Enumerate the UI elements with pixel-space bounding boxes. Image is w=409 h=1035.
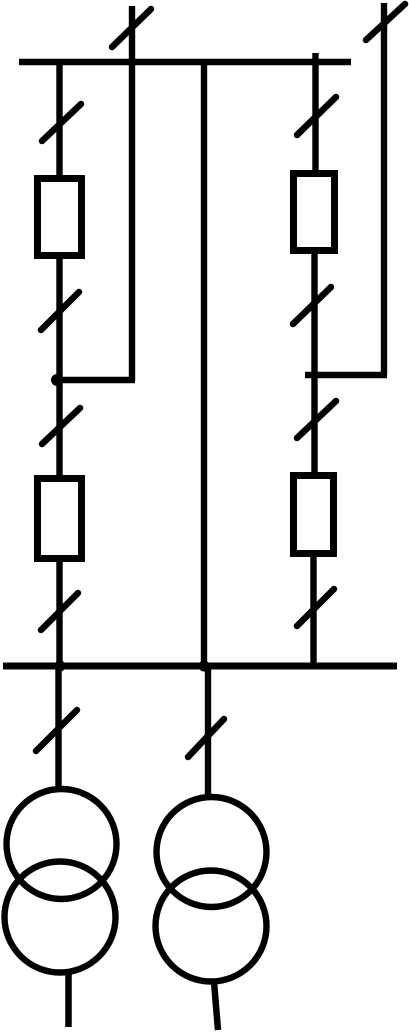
disconnector QS0b (slash on right bypass riser) xyxy=(366,4,405,40)
disconnector QS9 (above transformer T1) xyxy=(36,710,77,751)
breaker QF3 (right upper rectangle) xyxy=(294,174,335,251)
disconnector QS10 (above transformer T2) xyxy=(188,719,224,757)
node A (junction dot, left feeder / bypass) xyxy=(51,374,63,386)
disconnector QS2 (left feeder, above bypass tap) xyxy=(41,292,79,330)
bypass line right (vertical riser) xyxy=(381,3,387,375)
bottom busbar W2 xyxy=(3,663,397,670)
wire: transformer T1 feeder below bottom bus xyxy=(55,666,61,789)
disconnector QS3 (left feeder, below bypass tap) xyxy=(42,408,80,444)
disconnector QS5 (right feeder, below top bus) xyxy=(297,97,336,135)
disconnector QS1 (left feeder, below top bus) xyxy=(42,104,81,141)
breaker QF1 (left upper rectangle) xyxy=(38,179,82,256)
transformer T1 secondary winding xyxy=(5,862,116,973)
breaker QF4 (right lower rectangle) xyxy=(294,476,334,554)
wire: transformer T2 tail xyxy=(214,982,218,1030)
node C (junction dot, middle feeder on bottom bus) xyxy=(199,661,210,672)
disconnector QS7 (right feeder, below bypass tap) xyxy=(297,401,336,438)
disconnector QS4 (left feeder, above bottom bus) xyxy=(41,593,78,630)
disconnector QS6 (right feeder, above bypass tap) xyxy=(293,287,331,324)
disconnector QS0a (slash on left bypass riser) xyxy=(112,9,151,47)
disconnector QS8 (right feeder, above bottom bus) xyxy=(297,589,334,626)
bypass jumper left (horizontal) xyxy=(54,377,135,384)
transformer T2 primary winding xyxy=(157,797,267,907)
transformer T1 primary winding xyxy=(7,789,117,899)
wire: transformer T2 feeder below bottom bus xyxy=(205,666,211,796)
wire: left feeder middle section xyxy=(56,255,62,478)
wire: right feeder upper section xyxy=(312,62,318,173)
bypass jumper right (horizontal) xyxy=(305,372,387,379)
wire: left feeder lower section to bottom bus xyxy=(56,558,62,666)
wire: right feeder stub above top bus xyxy=(312,53,318,62)
bypass line left (vertical riser) xyxy=(129,6,135,381)
wire: middle feeder (top bus to bottom bus) xyxy=(201,62,207,666)
wire: left feeder upper section xyxy=(56,62,62,178)
breaker QF2 (left lower rectangle) xyxy=(38,479,82,559)
wire: transformer T1 tail xyxy=(65,973,72,1027)
transformer T2 secondary winding xyxy=(156,871,267,982)
wire: right feeder lower section to bottom bus xyxy=(310,553,316,666)
wire: right feeder middle section xyxy=(311,250,317,475)
node B (junction dot, left transformer feeder on bottom bus) xyxy=(55,661,66,672)
top busbar W1 xyxy=(19,59,351,66)
